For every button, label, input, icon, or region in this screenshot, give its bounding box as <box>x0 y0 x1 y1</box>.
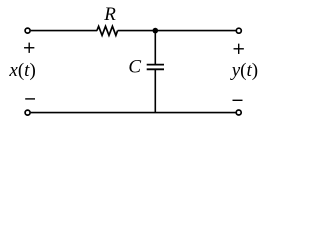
svg-text:R: R <box>103 4 116 25</box>
terminal bottom-left input port <box>25 110 30 115</box>
wire top-left segment (input to resistor) <box>31 30 97 32</box>
polarity minus (output) <box>233 99 243 101</box>
node junction dot <box>153 28 159 34</box>
svg-text:C: C <box>128 56 141 77</box>
polarity plus (output) <box>234 44 244 54</box>
wire bottom rail <box>31 112 236 114</box>
wire capacitor top lead <box>154 31 156 65</box>
polarity plus (input) <box>24 43 34 53</box>
polarity minus (input) <box>25 98 35 100</box>
svg-text:x(t): x(t) <box>8 60 35 81</box>
terminal top-left input port <box>25 28 30 33</box>
terminal bottom-right output port <box>236 110 241 115</box>
wire capacitor bottom lead <box>154 69 156 112</box>
resistor R <box>97 26 118 35</box>
svg-text:y(t): y(t) <box>230 60 258 81</box>
terminal top-right output port <box>236 28 241 33</box>
wire top-right segment (resistor to output) <box>118 30 236 32</box>
capacitor C <box>147 65 164 70</box>
